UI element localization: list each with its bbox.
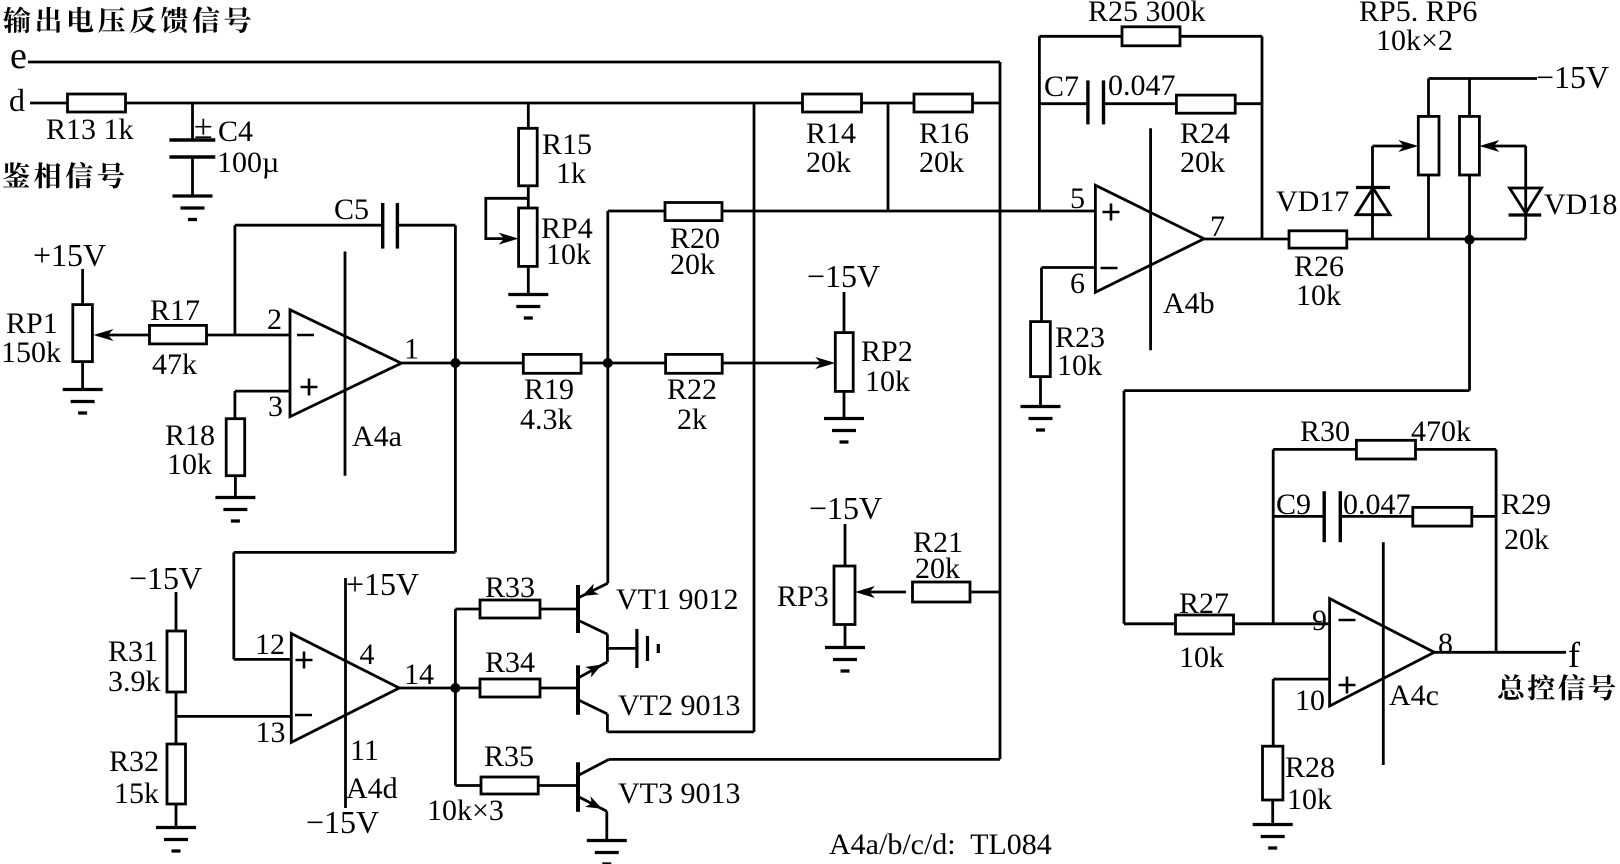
wire VT1 emitter up [606,579,609,583]
svg-text:10k: 10k [167,448,212,481]
svg-text:C4: C4 [218,115,253,148]
ground under VT3 [587,841,627,864]
svg-text:+15V: +15V [346,566,419,602]
svg-text:20k: 20k [806,146,851,179]
wire R30/C9 left vertical [1272,449,1275,623]
wire R20 to A4b pin5 [722,210,1095,213]
resistor R24 [1176,95,1235,113]
svg-text:C5: C5 [334,193,369,226]
svg-text:f: f [1568,635,1580,675]
resistor R20 [608,210,665,213]
wire e line [28,61,1000,64]
node A4d output [450,683,460,693]
svg-text:R25 300k: R25 300k [1088,0,1206,28]
svg-text:3: 3 [268,390,283,423]
wire RP6 wiper [1484,145,1526,148]
resistor R26 [1289,231,1347,248]
svg-text:RP2: RP2 [861,335,913,368]
svg-text:−15V: −15V [1536,59,1609,95]
svg-text:A4a: A4a [352,420,402,453]
resistor R14 [803,94,862,112]
svg-text:10k: 10k [1296,279,1341,312]
resistor R34 [480,679,540,697]
potentiometer RP1 [73,305,93,362]
wire feedback to A4c [1468,240,1471,391]
wire VT1/VT2 collector join [606,634,609,662]
svg-text:R29: R29 [1501,488,1551,521]
wire VT3 emitter down [605,811,608,840]
svg-text:R22: R22 [667,373,717,406]
ground under RP2 [824,419,864,443]
svg-text:5: 5 [1070,182,1085,215]
wire pin3 [235,390,290,393]
svg-text:3.9k: 3.9k [108,665,161,698]
svg-text:R35: R35 [484,740,534,773]
svg-text:470k: 470k [1411,415,1471,448]
svg-text:10k: 10k [1057,349,1102,382]
svg-text:−15V: −15V [807,258,880,294]
wire pin10 [1273,678,1329,681]
svg-text:15k: 15k [114,777,159,810]
resistor R21 [861,591,906,594]
wire d line left [30,102,68,105]
svg-text:14: 14 [404,658,434,691]
wire A4a output [401,362,523,365]
svg-text:A4c: A4c [1389,679,1439,712]
resistor R27 [1176,615,1234,634]
node A4a output [450,358,460,368]
wire R30/R29 right vertical [1495,449,1498,652]
svg-text:+15V: +15V [33,237,106,273]
node R19/R22 junction [603,358,613,368]
svg-text:10k×3: 10k×3 [427,794,504,827]
ground under R18 [215,498,255,522]
resistor R33 [455,608,480,611]
wire output to VD18 [1347,238,1526,241]
svg-text:20k: 20k [915,552,960,585]
svg-text:VD18: VD18 [1544,188,1617,221]
wire VT2 collector down [606,714,609,732]
label: phase-detect signal (Chinese) [3,162,124,189]
resistor R35 [455,784,481,787]
svg-text:4: 4 [360,638,375,671]
resistor R16 [914,94,973,112]
svg-text:R31: R31 [108,635,158,668]
potentiometer RP6 [1468,79,1471,117]
svg-text:12: 12 [255,628,285,661]
label: output voltage feedback signal (Chinese) [3,7,251,34]
wire VT3 collector line [609,758,1000,761]
svg-text:R28: R28 [1285,751,1335,784]
svg-text:10: 10 [1295,684,1325,717]
svg-text:150k: 150k [1,336,61,369]
wire long vertical (e/d net) [999,62,1002,759]
svg-text:10k: 10k [546,238,591,271]
resistor R18 [226,419,245,476]
wire R33/R35 vertical [454,609,457,786]
svg-text:RP3: RP3 [777,580,829,613]
svg-text:VT2 9013: VT2 9013 [618,689,741,722]
svg-text:VT3 9013: VT3 9013 [618,777,741,810]
svg-text:−15V: −15V [809,490,882,526]
capacitor C4 [191,103,194,140]
svg-text:A4b: A4b [1163,287,1215,320]
ground rotated (VT1/VT2) [607,647,635,650]
svg-text:R27: R27 [1179,587,1229,620]
wire R14/R16 junction down to pin5 line [887,103,890,211]
svg-text:20k: 20k [1504,523,1549,556]
resistor R32 [167,744,186,804]
resistor R31 [167,631,186,692]
resistor R13 [68,94,126,112]
svg-text:2: 2 [267,303,282,336]
svg-text:d: d [9,82,25,118]
ground under RP3 [825,648,865,672]
svg-text:100µ: 100µ [217,146,279,179]
wire R19 to R22 [581,362,666,365]
svg-text:0.047: 0.047 [1108,69,1176,102]
wire d-net vertical (754) [753,103,756,732]
ground under R32 [156,828,196,852]
resistor R19 [523,354,581,373]
svg-text:20k: 20k [1180,146,1225,179]
svg-text:10k×2: 10k×2 [1376,24,1453,57]
svg-text:R32: R32 [109,745,159,778]
node output junction [1465,235,1475,245]
svg-text:0.047: 0.047 [1343,488,1411,521]
svg-text:10k: 10k [1287,783,1332,816]
svg-text:1: 1 [404,333,419,366]
ground under RP1 [63,390,103,414]
svg-text:R34: R34 [485,646,535,679]
wire A4b output [1204,238,1289,241]
svg-text:8: 8 [1438,627,1453,660]
wire pin9 line [1124,622,1176,625]
svg-text:C7: C7 [1044,70,1079,103]
svg-text:VT1 9012: VT1 9012 [616,583,739,616]
svg-text:R13 1k: R13 1k [46,113,134,146]
svg-text:±: ± [194,109,213,146]
resistor R22 [666,354,723,373]
resistor R23 [1031,322,1051,377]
svg-text:1k: 1k [556,157,586,190]
svg-text:9: 9 [1312,604,1327,637]
svg-text:R30: R30 [1300,415,1350,448]
wire A4d output [399,687,480,690]
potentiometer RP2 [835,333,853,392]
wire d-line R14 segment [862,102,915,105]
wire A4a output to A4d pin12 [454,363,457,552]
svg-text:VD17: VD17 [1276,185,1349,218]
svg-text:4.3k: 4.3k [520,403,573,436]
wire R21 to vertical [970,591,1000,594]
svg-text:R17: R17 [150,294,200,327]
wire RP5 wiper [1373,145,1415,148]
ground under C4 [173,196,213,220]
wire R22 to RP2 wiper [722,362,831,365]
svg-text:6: 6 [1070,267,1085,300]
svg-text:11: 11 [350,734,379,767]
wire pin13 [176,715,291,718]
wire A4c output [1434,651,1566,654]
wire d line middle [126,102,803,105]
potentiometer RP3 [834,566,855,625]
svg-text:20k: 20k [670,248,715,281]
wire pin6 [1042,266,1096,269]
wire VT2 collector to d-net vertical [607,731,754,734]
op-amp A4b [1095,185,1204,292]
resistor R15 [527,103,530,128]
svg-text:e: e [10,35,27,77]
svg-text:R19: R19 [524,373,574,406]
svg-text:A4a/b/c/d: TL084: A4a/b/c/d: TL084 [829,828,1052,861]
ground under RP4 [508,295,548,319]
op-amp A4d [291,634,399,743]
svg-text:10k: 10k [865,365,910,398]
ground under R23 [1021,407,1061,431]
svg-text:13: 13 [256,716,286,749]
wire RP1 wiper [97,334,150,337]
svg-text:−15V: −15V [129,560,202,596]
resistor R29 [1413,507,1472,526]
wire R19 junction vertical [606,211,609,579]
ground under R28 [1253,825,1293,849]
svg-text:10k: 10k [1179,641,1224,674]
resistor R17 [150,325,207,344]
op-amp A4a [290,310,401,417]
wire C5 to pin2 [233,225,236,335]
wire R17 to pin2 [207,334,291,337]
svg-text:20k: 20k [919,146,964,179]
wire R25/R24 to output [1261,36,1264,239]
wire C5 to A4a output [454,225,457,363]
potentiometer RP4 [527,186,530,208]
resistor R28 [1263,746,1283,800]
svg-text:A4d: A4d [346,772,398,805]
potentiometer RP5 [1427,79,1430,117]
wire R16 to e corner [973,102,1001,105]
svg-text:2k: 2k [677,403,707,436]
svg-text:47k: 47k [152,348,197,381]
svg-text:−15V: −15V [306,804,379,840]
label: master control signal (Chinese) [1498,674,1615,701]
svg-text:R33: R33 [485,571,535,604]
op-amp A4c [1330,599,1435,706]
